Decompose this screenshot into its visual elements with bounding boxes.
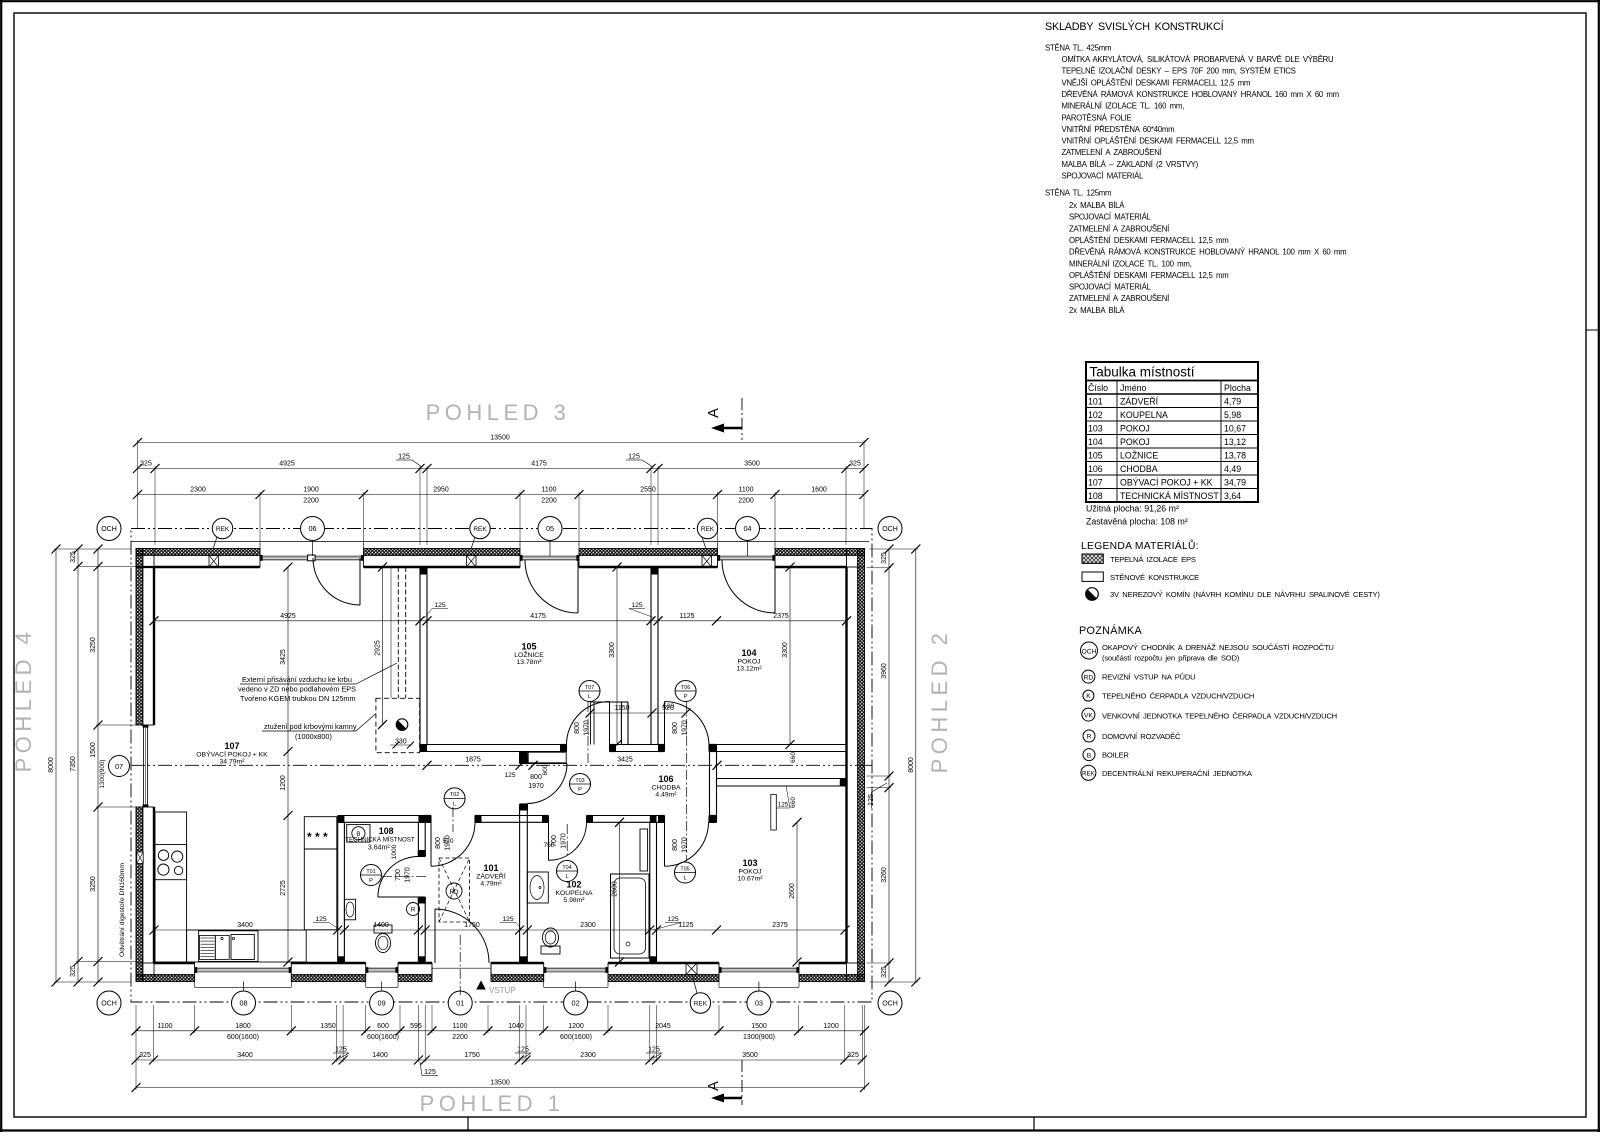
svg-text:OPLÁŠTĚNÍ DESKAMI FERMACELL 12: OPLÁŠTĚNÍ DESKAMI FERMACELL 12,5 mm: [1069, 236, 1228, 245]
entry door leaf and arc: [434, 909, 436, 963]
svg-text:3250: 3250: [90, 876, 97, 892]
svg-text:34,79: 34,79: [1224, 477, 1246, 487]
svg-text:T02: T02: [450, 792, 459, 798]
svg-text:1100: 1100: [452, 1023, 467, 1030]
svg-text:T07: T07: [585, 685, 594, 691]
room table Tabulka mistnosti: [1086, 362, 1258, 502]
svg-text:VK: VK: [1084, 712, 1093, 719]
svg-text:2600: 2600: [612, 881, 619, 897]
wall V4 between 102 and 103: [649, 822, 651, 963]
svg-text:A: A: [706, 1081, 722, 1091]
svg-text:125: 125: [631, 602, 643, 609]
svg-text:125: 125: [434, 602, 446, 609]
door T07 to room 105: [567, 702, 610, 745]
svg-text:700: 700: [395, 869, 402, 881]
svg-text:4925: 4925: [279, 461, 295, 468]
svg-text:ztužení pod krbovými kamny: ztužení pod krbovými kamny: [264, 722, 357, 731]
svg-text:BOILER: BOILER: [1102, 751, 1129, 760]
svg-text:SPOJOVACÍ MATERIÁL: SPOJOVACÍ MATERIÁL: [1062, 172, 1145, 181]
legend EPS symbol: [1082, 554, 1103, 563]
svg-text:OCH: OCH: [101, 1001, 117, 1008]
svg-text:1970: 1970: [405, 867, 412, 883]
door mark circles: [361, 865, 382, 886]
svg-text:OCH: OCH: [1082, 648, 1097, 655]
svg-text:Plocha: Plocha: [1224, 383, 1251, 393]
svg-text:1875: 1875: [465, 757, 481, 764]
svg-text:P: P: [369, 878, 373, 884]
right dimension chains: [888, 549, 890, 982]
svg-text:SPOJOVACÍ MATERIÁL: SPOJOVACÍ MATERIÁL: [1069, 283, 1152, 292]
entry door opening: [432, 967, 491, 969]
note OCH: [1081, 642, 1098, 659]
svg-text:13500: 13500: [490, 435, 510, 442]
svg-text:325: 325: [847, 1052, 859, 1059]
door T06 to room 104: [665, 702, 710, 745]
svg-text:Zastavěná plocha: 108 m²: Zastavěná plocha: 108 m²: [1086, 517, 1188, 527]
door T02 to zadveri: [430, 822, 432, 866]
svg-text:KOUPELNA: KOUPELNA: [555, 890, 592, 897]
svg-text:P: P: [684, 694, 688, 700]
svg-text:L: L: [683, 876, 686, 882]
closet divider wall H3: [717, 778, 847, 780]
stove: [155, 845, 187, 880]
interior wall V2 between 105 and 104: [650, 567, 652, 745]
svg-text:2300: 2300: [580, 1052, 596, 1059]
note VK: [1082, 708, 1095, 721]
svg-text:800: 800: [574, 722, 581, 734]
svg-text:106: 106: [1088, 464, 1103, 474]
svg-text:KOUPELNA: KOUPELNA: [1120, 410, 1168, 420]
svg-text:125: 125: [667, 916, 679, 923]
svg-text:ZÁDVEŘÍ: ZÁDVEŘÍ: [476, 872, 506, 881]
door window B leaf and arc: [577, 560, 579, 613]
svg-text:08: 08: [239, 999, 247, 1008]
svg-text:STĚNA TL. 125mm: STĚNA TL. 125mm: [1045, 189, 1111, 198]
svg-text:1750: 1750: [464, 922, 480, 929]
svg-text:P: P: [578, 787, 582, 793]
svg-text:2045: 2045: [655, 1023, 671, 1030]
svg-text:4.79m²: 4.79m²: [480, 881, 502, 888]
interior dim line lower rooms: [154, 929, 845, 931]
washbasin 108: [344, 899, 355, 920]
svg-text:T05: T05: [680, 866, 689, 872]
svg-text:ZATMELENÍ A ZABROUŠENÍ: ZATMELENÍ A ZABROUŠENÍ: [1069, 224, 1170, 233]
svg-text:1040: 1040: [508, 1023, 524, 1030]
svg-text:TEPELNĚ IZOLAČNÍ DESKY – EPS 7: TEPELNĚ IZOLAČNÍ DESKY – EPS 70F 200 mm,…: [1062, 67, 1296, 76]
wall junction blocks: [420, 567, 427, 575]
note B: [1083, 749, 1095, 761]
svg-text:3500: 3500: [744, 461, 760, 468]
svg-text:600(1600): 600(1600): [560, 1034, 592, 1041]
note K: [1083, 690, 1094, 701]
svg-text:1150: 1150: [614, 705, 629, 712]
svg-text:101: 101: [1088, 396, 1103, 406]
svg-text:DOMOVNÍ ROZVADĚČ: DOMOVNÍ ROZVADĚČ: [1102, 732, 1181, 741]
exterior wall right: [858, 549, 865, 982]
svg-text:2200: 2200: [303, 498, 319, 505]
svg-text:34.79m²: 34.79m²: [220, 759, 246, 766]
svg-text:VNITŘNÍ PŘEDSTĚNA 60*40mm: VNITŘNÍ PŘEDSTĚNA 60*40mm: [1062, 125, 1175, 134]
svg-text:2600: 2600: [789, 883, 796, 899]
svg-text:POHLED 3: POHLED 3: [426, 400, 571, 425]
svg-text:325: 325: [849, 461, 861, 468]
svg-text:B: B: [1087, 752, 1092, 759]
svg-text:7350: 7350: [70, 756, 77, 772]
svg-text:REK: REK: [473, 526, 487, 533]
legend wall symbol: [1082, 572, 1103, 581]
svg-text:2200: 2200: [738, 498, 754, 505]
toilet 108: [374, 925, 392, 933]
bottom windows: [195, 967, 292, 969]
svg-text:Číslo: Číslo: [1088, 383, 1108, 393]
svg-text:3.64m²: 3.64m²: [368, 845, 390, 852]
svg-text:325: 325: [139, 1052, 151, 1059]
svg-text:600: 600: [542, 764, 549, 775]
wardrobe rect in 103 closet strip: [771, 794, 777, 830]
svg-text:325: 325: [70, 551, 77, 563]
left extension lines: [54, 548, 131, 550]
svg-text:DŘEVĚNÁ RÁMOVÁ KONSTRUKCE HOBL: DŘEVĚNÁ RÁMOVÁ KONSTRUKCE HOBLOVANÝ HRAN…: [1062, 90, 1339, 99]
svg-text:1200: 1200: [823, 1023, 839, 1030]
svg-text:1125: 1125: [678, 922, 693, 929]
krb dashed foundation box: [376, 698, 420, 752]
left dimension chains: [55, 549, 57, 982]
svg-text:325: 325: [881, 966, 888, 978]
left wall vent box: [137, 852, 143, 864]
svg-text:13500: 13500: [490, 1080, 510, 1087]
svg-text:1970: 1970: [682, 837, 689, 853]
svg-text:1300(900): 1300(900): [99, 759, 106, 788]
interior wall V1 between 107 and 105: [419, 567, 421, 745]
svg-text:POZNÁMKA: POZNÁMKA: [1079, 624, 1142, 637]
center dash-dot line: [131, 764, 872, 766]
svg-text:1400: 1400: [372, 1052, 388, 1059]
svg-text:(součástí rozpočtu jen příprav: (součástí rozpočtu jen příprava dle SOD): [1102, 654, 1240, 663]
svg-text:800: 800: [672, 839, 679, 851]
svg-text:04: 04: [743, 524, 751, 533]
svg-text:3400: 3400: [237, 1052, 253, 1059]
svg-text:520: 520: [442, 838, 453, 845]
svg-text:104: 104: [741, 648, 756, 658]
svg-text:1500: 1500: [751, 1023, 767, 1030]
svg-text:600(1600): 600(1600): [227, 1034, 259, 1041]
door T01 to 108: [378, 896, 419, 898]
svg-text:108: 108: [1088, 491, 1103, 501]
svg-text:REK: REK: [701, 526, 715, 533]
svg-text:105: 105: [521, 642, 536, 652]
svg-text:Odvětrání digestoře DN160mm: Odvětrání digestoře DN160mm: [119, 863, 126, 957]
svg-text:1300(900): 1300(900): [743, 1034, 775, 1041]
roof overhang line top: [131, 541, 869, 543]
kitchen tall cabinet: [304, 817, 337, 930]
svg-text:POKOJ: POKOJ: [737, 659, 760, 666]
svg-text:1500: 1500: [90, 742, 97, 758]
sheet outer border: [0, 0, 1600, 2]
toilet 102: [541, 946, 560, 954]
svg-text:06: 06: [308, 524, 316, 533]
svg-text:8000: 8000: [48, 757, 55, 773]
svg-text:MALBA BÍLÁ – ZÁKLADNÍ (2 VRSTV: MALBA BÍLÁ – ZÁKLADNÍ (2 VRSTVY): [1062, 160, 1199, 169]
svg-text:125: 125: [628, 454, 640, 461]
top extension lines: [137, 440, 139, 528]
svg-text:660: 660: [790, 797, 797, 808]
svg-text:2950: 2950: [433, 487, 449, 494]
corridor top wall H1 with doors to 105 and 104: [420, 744, 567, 746]
svg-text:3425: 3425: [280, 649, 287, 665]
svg-text:3250: 3250: [90, 637, 97, 653]
svg-text:VSTUP: VSTUP: [489, 986, 516, 995]
svg-text:2200: 2200: [541, 498, 557, 505]
svg-text:5.98m²: 5.98m²: [563, 897, 585, 904]
svg-text:3260: 3260: [881, 867, 888, 883]
svg-text:STĚNA TL. 425mm: STĚNA TL. 425mm: [1045, 44, 1111, 53]
left facade 07 circle: [109, 756, 130, 777]
svg-text:OCH: OCH: [101, 526, 117, 533]
corridor bottom wall H2: [338, 815, 431, 817]
svg-text:800: 800: [530, 774, 542, 781]
svg-text:600: 600: [377, 1023, 389, 1030]
wall V5 corridor east end: [709, 745, 711, 823]
svg-text:LOŽNICE: LOŽNICE: [514, 650, 544, 659]
svg-text:VENKOVNÍ JEDNOTKA TEPELNÉHO ČE: VENKOVNÍ JEDNOTKA TEPELNÉHO ČERPADLA VZD…: [1102, 712, 1337, 721]
radiator 102: [640, 829, 648, 871]
svg-text:CHODBA: CHODBA: [1120, 464, 1158, 474]
svg-text:101: 101: [483, 863, 498, 873]
svg-text:595: 595: [410, 1023, 422, 1030]
svg-text:1750: 1750: [464, 1052, 480, 1059]
svg-text:REK: REK: [216, 526, 230, 533]
svg-text:3300: 3300: [782, 642, 789, 658]
chimney symbol: [396, 719, 408, 731]
svg-text:4,49: 4,49: [1224, 464, 1241, 474]
wall V6 west of 108: [337, 822, 339, 963]
svg-text:1970: 1970: [584, 720, 591, 736]
svg-text:2x MALBA BÍLÁ: 2x MALBA BÍLÁ: [1069, 306, 1125, 315]
svg-text:PAROTĚSNÁ FOLIE: PAROTĚSNÁ FOLIE: [1062, 113, 1132, 122]
svg-text:2725: 2725: [280, 880, 287, 896]
svg-text:T01: T01: [366, 869, 375, 875]
top wall inner face line: [154, 566, 260, 568]
svg-text:2200: 2200: [452, 1034, 468, 1041]
svg-text:Externí přisávání vzduchu ke k: Externí přisávání vzduchu ke krbu: [242, 675, 352, 684]
svg-text:105: 105: [1088, 450, 1103, 460]
svg-text:POKOJ: POKOJ: [738, 869, 761, 876]
svg-text:SKLADBY SVISLÝCH KONSTRUKCÍ: SKLADBY SVISLÝCH KONSTRUKCÍ: [1045, 20, 1224, 33]
svg-text:4175: 4175: [531, 461, 547, 468]
svg-text:R: R: [411, 907, 416, 914]
svg-text:1125: 1125: [679, 613, 694, 620]
svg-text:5,98: 5,98: [1224, 410, 1241, 420]
svg-text:T04: T04: [562, 865, 571, 871]
top facade mark circles: [212, 518, 232, 538]
svg-text:1970: 1970: [528, 783, 544, 790]
svg-text:2300: 2300: [190, 487, 206, 494]
svg-text:T03: T03: [575, 778, 584, 784]
svg-text:125: 125: [315, 916, 327, 923]
svg-text:MINERÁLNÍ IZOLACE TL. 100 mm,: MINERÁLNÍ IZOLACE TL. 100 mm,: [1069, 259, 1192, 268]
svg-text:OCH: OCH: [882, 1001, 898, 1008]
door T03 to koupelna from hall: [527, 763, 567, 765]
svg-text:750: 750: [543, 842, 554, 849]
svg-text:1100: 1100: [541, 487, 556, 494]
svg-text:2550: 2550: [640, 487, 656, 494]
svg-text:125: 125: [502, 916, 514, 923]
interior dim line upper rooms: [154, 620, 847, 622]
svg-text:DECENTRÁLNÍ REKUPERAČNÍ JEDNOT: DECENTRÁLNÍ REKUPERAČNÍ JEDNOTKA: [1102, 769, 1253, 778]
svg-text:ZÁDVEŘÍ: ZÁDVEŘÍ: [1120, 396, 1159, 406]
note REK: [1081, 765, 1096, 780]
OCH circles: [97, 517, 121, 541]
svg-text:4,79: 4,79: [1224, 396, 1241, 406]
R rozvadec circle: [407, 903, 420, 916]
svg-text:107: 107: [1088, 477, 1103, 487]
svg-text:1970: 1970: [561, 833, 568, 849]
svg-text:4175: 4175: [530, 613, 546, 620]
svg-text:2x MALBA BÍLÁ: 2x MALBA BÍLÁ: [1069, 201, 1125, 210]
svg-text:104: 104: [1088, 437, 1103, 447]
svg-text:2925: 2925: [375, 640, 382, 656]
svg-text:13,78: 13,78: [1224, 450, 1246, 460]
VSTUP arrow: [476, 981, 486, 990]
washbasin 102: [527, 872, 548, 903]
svg-text:125: 125: [424, 1069, 436, 1076]
svg-text:3425: 3425: [617, 757, 633, 764]
svg-text:1000: 1000: [391, 844, 398, 859]
air duct dashed lines: [397, 567, 399, 698]
svg-text:L: L: [588, 694, 591, 700]
svg-text:108: 108: [379, 826, 394, 836]
svg-text:vedeno v ZD nebo podlahovém EP: vedeno v ZD nebo podlahovém EPS: [238, 685, 356, 694]
svg-text:T06: T06: [681, 685, 690, 691]
svg-text:1600: 1600: [811, 487, 827, 494]
svg-text:OMÍTKA AKRYLÁTOVÁ, SILIKÁTOVÁ: OMÍTKA AKRYLÁTOVÁ, SILIKÁTOVÁ PROBARVENÁ…: [1062, 55, 1335, 64]
bottom facade mark circles: [232, 991, 256, 1015]
svg-text:OBÝVACÍ POKOJ + KK: OBÝVACÍ POKOJ + KK: [196, 750, 268, 759]
svg-text:125: 125: [517, 1047, 529, 1054]
boiler in 108: [347, 825, 370, 843]
attic access RD dashed box: [439, 858, 470, 922]
svg-text:325: 325: [881, 552, 888, 564]
svg-text:1350: 1350: [320, 1023, 336, 1030]
svg-text:800: 800: [672, 722, 679, 734]
svg-text:TECHNICKÁ MÍSTNOST: TECHNICKÁ MÍSTNOST: [345, 837, 415, 844]
svg-text:POHLED 2: POHLED 2: [927, 629, 952, 774]
door window C leaf and arc: [774, 560, 776, 613]
svg-text:660: 660: [790, 752, 797, 763]
svg-text:2375: 2375: [773, 613, 789, 620]
svg-text:1970: 1970: [682, 720, 689, 736]
bottom dimension chain 13500: [136, 1087, 865, 1089]
svg-text:1200: 1200: [568, 1023, 584, 1030]
svg-text:VNITŘNÍ OPLÁŠTĚNÍ DESKAMI FERM: VNITŘNÍ OPLÁŠTĚNÍ DESKAMI FERMACELL 12,5…: [1062, 137, 1254, 146]
svg-text:SPOJOVACÍ MATERIÁL: SPOJOVACÍ MATERIÁL: [1069, 213, 1152, 222]
svg-text:R: R: [1087, 734, 1092, 741]
svg-text:OPLÁŠTĚNÍ DESKAMI FERMACELL 12: OPLÁŠTĚNÍ DESKAMI FERMACELL 12,5 mm: [1069, 271, 1228, 280]
svg-text:125: 125: [778, 802, 789, 809]
ledge near V3 top: [528, 752, 566, 763]
svg-text:REK: REK: [1082, 770, 1096, 777]
top dimension chain 2: [138, 468, 865, 470]
svg-text:Tabulka místností: Tabulka místností: [1090, 365, 1195, 380]
svg-text:RD: RD: [450, 889, 459, 896]
svg-text:125: 125: [504, 772, 515, 779]
door axis dash-dot lines: [587, 702, 589, 765]
door T05 to room 103: [664, 822, 666, 866]
svg-text:Tvořeno KGEM trubkou DN 125mm: Tvořeno KGEM trubkou DN 125mm: [240, 694, 356, 703]
svg-text:3960: 3960: [881, 663, 888, 679]
svg-text:3400: 3400: [237, 922, 253, 929]
wall V3 between 101 and 102: [519, 752, 521, 764]
svg-text:13.12m²: 13.12m²: [737, 666, 763, 673]
svg-text:POHLED 1: POHLED 1: [420, 1091, 565, 1116]
svg-text:MINERÁLNÍ IZOLACE TL. 160 mm,: MINERÁLNÍ IZOLACE TL. 160 mm,: [1062, 102, 1185, 111]
svg-text:102: 102: [1088, 410, 1103, 420]
interior vertical dims: [287, 567, 289, 962]
svg-text:09: 09: [378, 999, 386, 1008]
exterior wall bottom: [136, 975, 195, 982]
svg-text:TEPELNÉHO ČERPADLA VZDUCH/VZDU: TEPELNÉHO ČERPADLA VZDUCH/VZDUCH: [1102, 692, 1254, 701]
section mark A top: [741, 398, 743, 440]
svg-text:125: 125: [398, 454, 410, 461]
niche dims in 105: [590, 712, 686, 714]
svg-text:01: 01: [456, 999, 464, 1008]
svg-text:107: 107: [224, 741, 239, 751]
svg-text:13,12: 13,12: [1224, 437, 1246, 447]
svg-text:K: K: [1086, 693, 1091, 700]
svg-text:CHODBA: CHODBA: [651, 785, 681, 792]
svg-text:10,67: 10,67: [1224, 423, 1246, 433]
svg-text:TECHNICKÁ MÍSTNOST: TECHNICKÁ MÍSTNOST: [1120, 491, 1219, 501]
svg-text:1100: 1100: [738, 487, 753, 494]
bottom dimension chain B: [136, 1059, 862, 1061]
svg-text:2300: 2300: [580, 922, 596, 929]
top windows: [260, 555, 364, 557]
svg-text:TEPELNÁ IZOLACE EPS: TEPELNÁ IZOLACE EPS: [1110, 555, 1196, 564]
svg-text:3,64: 3,64: [1224, 491, 1241, 501]
svg-text:STĚNOVÉ KONSTRUKCE: STĚNOVÉ KONSTRUKCE: [1110, 573, 1199, 582]
svg-text:OKAPOVÝ CHODNÍK A DRENÁŽ NEJSO: OKAPOVÝ CHODNÍK A DRENÁŽ NEJSOU SOUČÁSTÍ…: [1102, 643, 1334, 652]
svg-text:1400: 1400: [373, 922, 389, 929]
kitchen west counter: [155, 812, 187, 962]
right extension lines: [870, 548, 919, 550]
svg-text:Užitná plocha: 91,26 m²: Užitná plocha: 91,26 m²: [1086, 504, 1179, 514]
svg-text:07: 07: [115, 762, 123, 771]
bottom dimension chain A windows: [136, 1030, 865, 1032]
svg-text:600(1600): 600(1600): [367, 1034, 399, 1041]
svg-text:ZATMELENÍ A ZABROUŠENÍ: ZATMELENÍ A ZABROUŠENÍ: [1062, 148, 1163, 157]
svg-text:DŘEVĚNÁ RÁMOVÁ KONSTRUKCE HOBL: DŘEVĚNÁ RÁMOVÁ KONSTRUKCE HOBLOVANÝ HRAN…: [1069, 248, 1346, 257]
bottom extension lines: [135, 1005, 137, 1090]
svg-text:OCH: OCH: [882, 526, 898, 533]
svg-text:3V NEREZOVÝ KOMÍN (NÁVRH KOM: 3V NEREZOVÝ KOMÍN (NÁVRH KOMÍNU DLE NÁVR…: [1110, 590, 1380, 599]
svg-text:Jméno: Jméno: [1120, 383, 1147, 393]
svg-text:1100: 1100: [157, 1023, 172, 1030]
svg-text:8000: 8000: [908, 757, 915, 773]
svg-text:103: 103: [742, 858, 757, 868]
svg-text:103: 103: [1088, 423, 1103, 433]
bathtub 102: [611, 874, 650, 958]
door T04 to koupelna: [548, 822, 550, 860]
svg-text:LOŽNICE: LOŽNICE: [1120, 450, 1158, 460]
svg-text:RD: RD: [1084, 674, 1094, 681]
door window A leaf and arc: [359, 558, 361, 605]
svg-text:520: 520: [663, 703, 674, 710]
svg-text:2375: 2375: [772, 922, 788, 929]
legend chimney symbol: [1086, 588, 1099, 601]
OCH walkway dash-dot outline: [131, 529, 872, 1003]
right margin fold mark: [1586, 329, 1599, 331]
svg-text:800: 800: [435, 837, 442, 849]
